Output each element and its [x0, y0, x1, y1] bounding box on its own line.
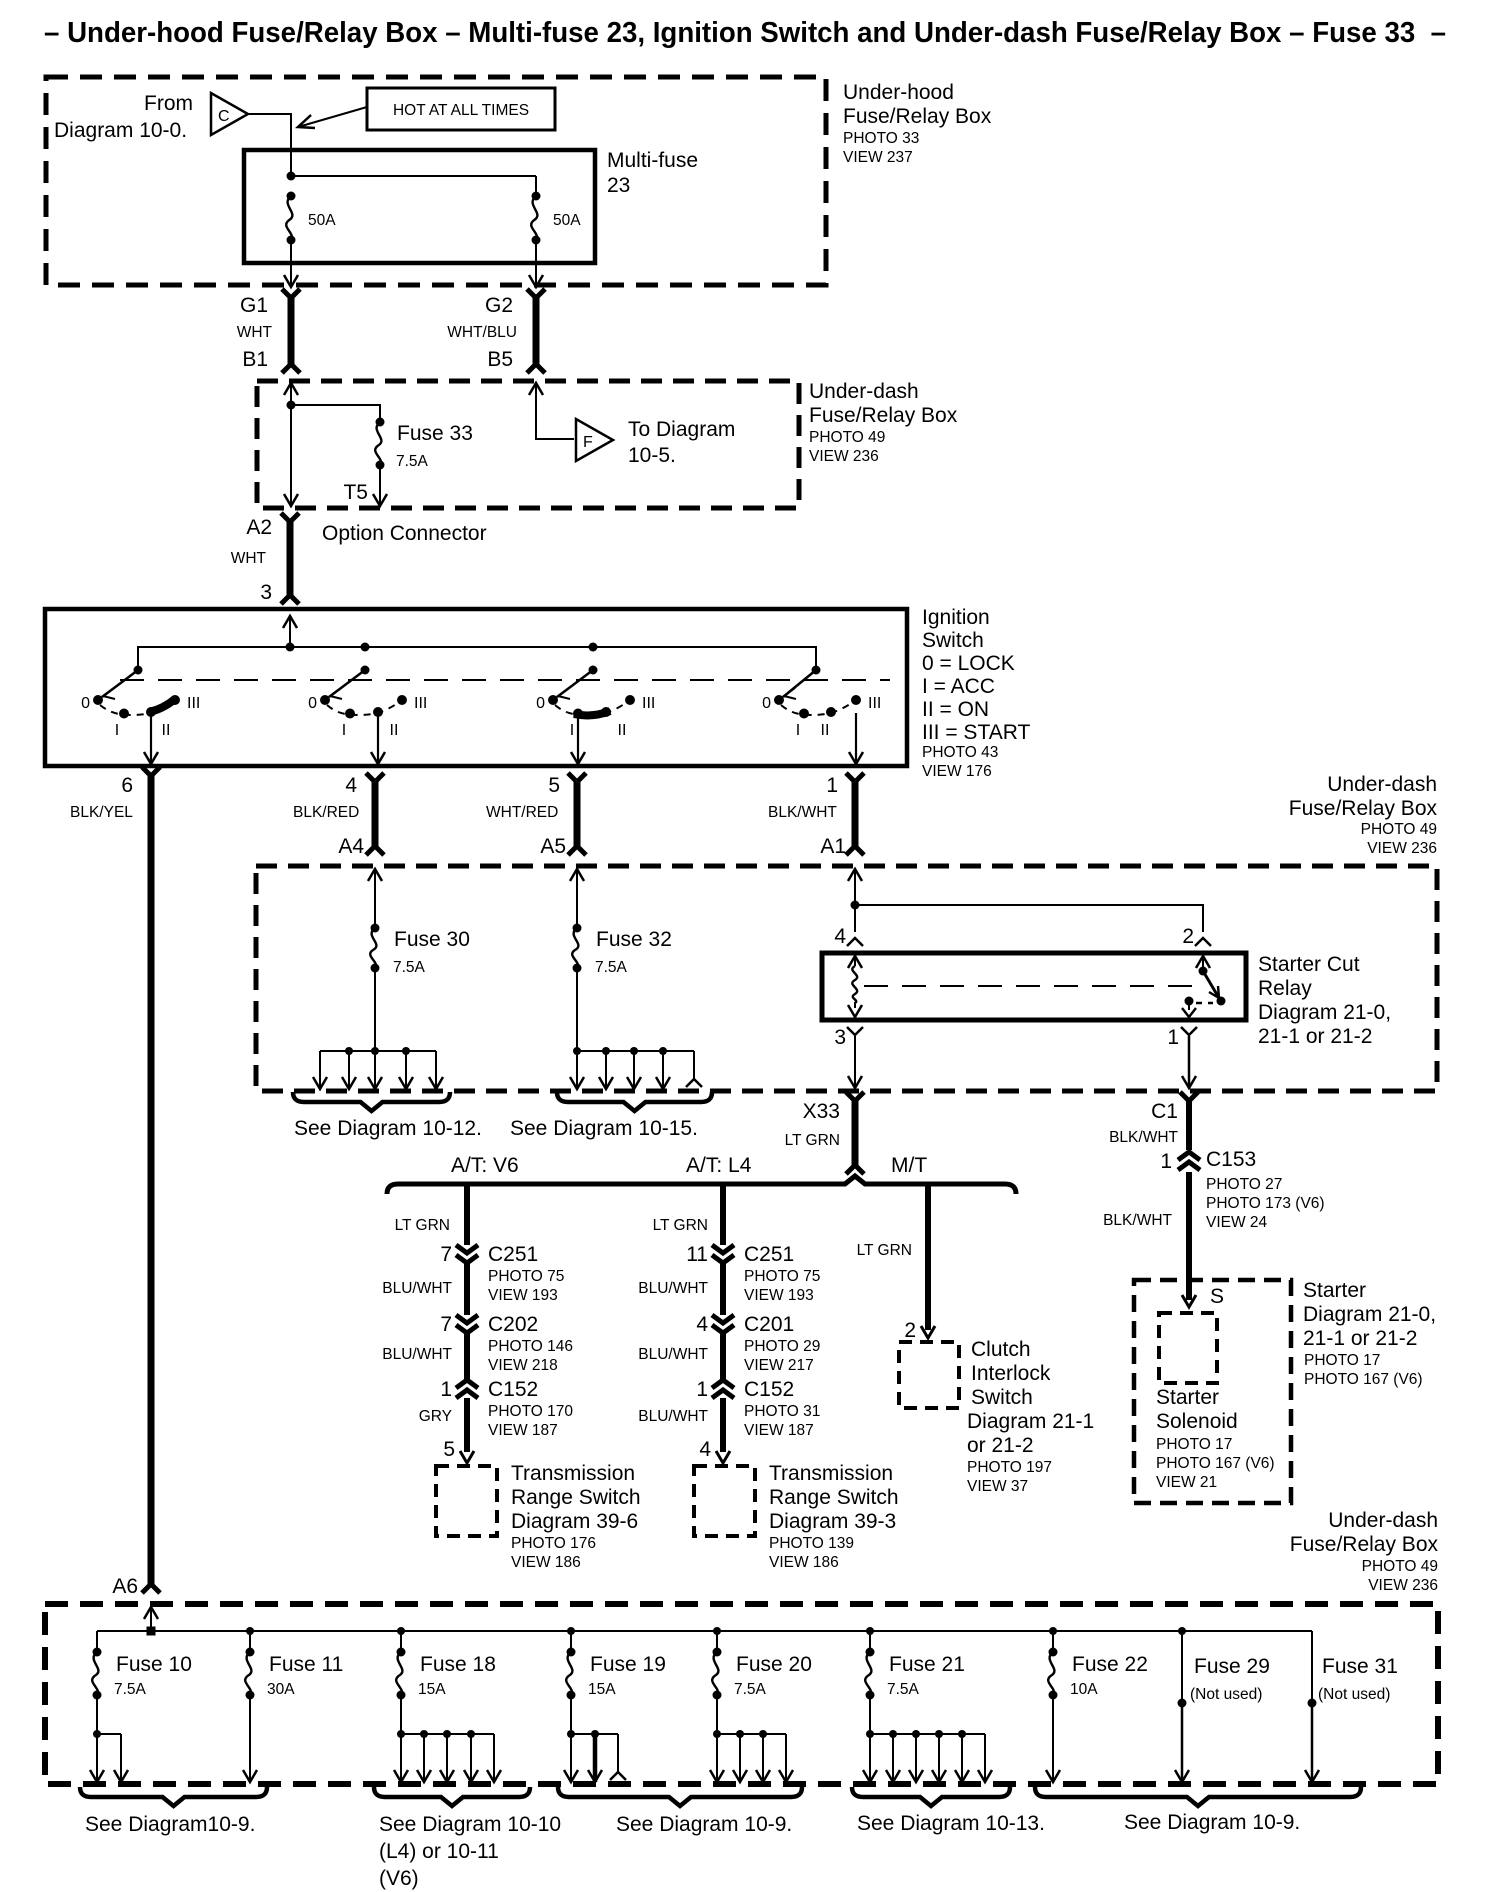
svg-text:VIEW 24: VIEW 24 [1206, 1214, 1268, 1231]
svg-text:2: 2 [1182, 925, 1194, 948]
svg-text:WHT: WHT [231, 550, 267, 567]
svg-text:Under-dash: Under-dash [1327, 773, 1437, 796]
svg-text:VIEW 193: VIEW 193 [744, 1287, 814, 1304]
svg-text:M/T: M/T [891, 1154, 927, 1177]
svg-text:C: C [218, 108, 230, 125]
svg-text:Diagram 21-0,: Diagram 21-0, [1303, 1303, 1436, 1326]
transmission range switch box (V6) [436, 1466, 497, 1536]
fuse 31 (not used) [1308, 1631, 1398, 1708]
wire fuse to G2 [529, 240, 543, 287]
svg-text:0: 0 [762, 695, 771, 712]
fuse 33 7.5A [375, 418, 473, 471]
brace see diagram 10-10/10-11 (fuse 18) [374, 1787, 561, 1890]
svg-text:VIEW 186: VIEW 186 [769, 1554, 839, 1571]
svg-text:3: 3 [834, 1026, 846, 1049]
terminal 6 connector and wire BLK/YEL to A6 [70, 767, 160, 1593]
svg-text:PHOTO 33: PHOTO 33 [843, 130, 919, 147]
fuse 30 output branch (see diagram 10-12) [313, 1047, 443, 1089]
wire BLU/WHT (V6 C202-C152) [382, 1333, 467, 1380]
svg-text:Multi-fuse: Multi-fuse [607, 149, 698, 172]
svg-text:Diagram 21-0,: Diagram 21-0, [1258, 1001, 1391, 1024]
svg-text:VIEW 187: VIEW 187 [744, 1422, 814, 1439]
svg-text:– Under-hood Fuse/Relay Box –: – Under-hood Fuse/Relay Box – Multi-fuse… [44, 17, 1446, 49]
svg-text:Solenoid: Solenoid [1156, 1410, 1238, 1433]
arrow from HOT AT ALL TIMES to wire [298, 107, 367, 128]
svg-text:To Diagram: To Diagram [628, 418, 735, 441]
fuse 19 output branch [564, 1695, 626, 1782]
fuse 20 output branch [710, 1695, 793, 1782]
svg-text:PHOTO 75: PHOTO 75 [488, 1268, 564, 1285]
svg-text:BLK/WHT: BLK/WHT [1103, 1212, 1172, 1229]
svg-text:See Diagram 10-15.: See Diagram 10-15. [510, 1117, 698, 1140]
fuse 21 output branch [863, 1695, 992, 1782]
svg-text:PHOTO 173 (V6): PHOTO 173 (V6) [1206, 1195, 1325, 1212]
svg-text:50A: 50A [308, 212, 336, 229]
svg-text:Starter Cut: Starter Cut [1258, 953, 1360, 976]
svg-text:II: II [821, 722, 830, 739]
svg-text:0: 0 [308, 695, 317, 712]
under-hood fuse/relay box (dashed enclosure) [46, 77, 826, 285]
svg-text:Fuse 10: Fuse 10 [116, 1653, 192, 1676]
svg-text:I: I [796, 722, 800, 739]
fuse 50A (left, multi-fuse 23) [286, 192, 336, 245]
connector C251 pin 11 (L4) [686, 1243, 820, 1304]
wire branch to relay pin 2 [855, 905, 1203, 932]
fuse 19 15A [566, 1627, 666, 1700]
connector C from Diagram 10-0 [211, 93, 248, 135]
svg-text:See Diagram 10-12.: See Diagram 10-12. [294, 1117, 482, 1140]
svg-text:VIEW 186: VIEW 186 [511, 1554, 581, 1571]
svg-text:X33: X33 [803, 1100, 840, 1123]
starter label (right) [1303, 1279, 1436, 1388]
svg-text:7.5A: 7.5A [396, 453, 429, 470]
svg-text:VIEW 236: VIEW 236 [1368, 1577, 1438, 1594]
svg-text:LT GRN: LT GRN [653, 1217, 708, 1234]
svg-text:Starter: Starter [1156, 1386, 1219, 1409]
ignition switch label [922, 606, 1031, 780]
svg-text:0: 0 [536, 695, 545, 712]
brace see diagram 10-9 (fuses 19-20) [558, 1787, 802, 1836]
fuse 21 7.5A [865, 1627, 965, 1700]
svg-text:II: II [390, 722, 399, 739]
svg-text:Clutch: Clutch [971, 1338, 1031, 1361]
wire BLU/WHT to transmission range switch (L4) pin 4 [638, 1398, 730, 1463]
fuse 10 7.5A [92, 1631, 192, 1700]
connector C1 BLK/WHT [1109, 1092, 1198, 1150]
svg-text:PHOTO 75: PHOTO 75 [744, 1268, 820, 1285]
svg-text:B5: B5 [487, 348, 513, 371]
svg-text:PHOTO 170: PHOTO 170 [488, 1403, 573, 1420]
svg-text:6: 6 [121, 774, 133, 797]
labels G1 WHT B1 [237, 294, 273, 371]
svg-text:PHOTO 176: PHOTO 176 [511, 1535, 596, 1552]
ignition dashed position line [120, 679, 890, 681]
wire relay pin 1 to C1 [1182, 1036, 1196, 1088]
svg-text:WHT: WHT [237, 324, 273, 341]
svg-text:PHOTO 167 (V6): PHOTO 167 (V6) [1156, 1455, 1275, 1472]
svg-text:50A: 50A [553, 212, 581, 229]
wire fuse 32 to branch [576, 968, 578, 1051]
wire fuse 30 to branch [374, 968, 376, 1051]
svg-text:A/T: L4: A/T: L4 [686, 1154, 752, 1177]
svg-text:Fuse/Relay Box: Fuse/Relay Box [809, 404, 958, 427]
svg-text:C251: C251 [488, 1243, 538, 1266]
bottom bus [97, 1630, 1312, 1632]
connector X33 LT GRN [785, 1092, 864, 1174]
svg-text:VIEW 37: VIEW 37 [967, 1478, 1028, 1495]
svg-text:0: 0 [81, 695, 90, 712]
svg-text:1: 1 [826, 774, 838, 797]
svg-text:T5: T5 [343, 481, 368, 504]
svg-text:(Not used): (Not used) [1190, 1686, 1262, 1703]
svg-text:PHOTO 17: PHOTO 17 [1156, 1436, 1232, 1453]
svg-text:4: 4 [834, 925, 846, 948]
brace see diagram 10-9 (fuses 10-11) [80, 1787, 267, 1836]
svg-text:C1: C1 [1151, 1100, 1178, 1123]
svg-text:Under-hood: Under-hood [843, 81, 954, 104]
wire A6 into box and bus [144, 1607, 158, 1636]
svg-text:PHOTO 31: PHOTO 31 [744, 1403, 820, 1420]
svg-text:II: II [162, 722, 171, 739]
svg-text:10A: 10A [1070, 1681, 1098, 1698]
svg-text:7.5A: 7.5A [734, 1681, 767, 1698]
label To Diagram 10-5. [628, 418, 735, 467]
connector G2/B5 [527, 289, 545, 373]
svg-text:See Diagram 10-9.: See Diagram 10-9. [1124, 1811, 1300, 1834]
svg-text:III: III [187, 695, 200, 712]
connector A6 [112, 1575, 138, 1598]
svg-text:F: F [583, 434, 593, 451]
relay pin 2 [1182, 925, 1211, 948]
svg-text:or 21-2: or 21-2 [967, 1434, 1034, 1457]
svg-text:C153: C153 [1206, 1148, 1256, 1171]
fuse 11 output wire [243, 1695, 257, 1782]
fuse 10 output branch [90, 1695, 128, 1782]
svg-text:1: 1 [440, 1378, 452, 1401]
fuse 20 7.5A [712, 1627, 812, 1700]
fuse 50A (right, multi-fuse 23) [531, 192, 581, 245]
svg-text:4: 4 [696, 1313, 708, 1336]
brace see diagram 10-13 (fuse 21) [852, 1787, 1045, 1835]
svg-text:Under-dash: Under-dash [809, 380, 919, 403]
svg-text:III = START: III = START [922, 721, 1031, 744]
svg-text:Fuse/Relay Box: Fuse/Relay Box [1289, 797, 1438, 820]
wire BLU/WHT (L4 C251-C201) [638, 1263, 723, 1315]
svg-text:Switch: Switch [971, 1386, 1033, 1409]
branch bracket [387, 1176, 1016, 1194]
transmission range switch box (L4) [694, 1466, 755, 1536]
svg-text:Diagram 39-3: Diagram 39-3 [769, 1510, 896, 1533]
svg-text:Fuse 11: Fuse 11 [269, 1653, 343, 1676]
wire C153 to starter solenoid [1182, 1172, 1196, 1307]
svg-text:5: 5 [443, 1438, 455, 1461]
svg-text:PHOTO 197: PHOTO 197 [967, 1459, 1052, 1476]
svg-text:0 = LOCK: 0 = LOCK [922, 652, 1015, 675]
svg-text:III: III [642, 695, 655, 712]
svg-text:PHOTO 27: PHOTO 27 [1206, 1176, 1282, 1193]
svg-text:Diagram 21-1: Diagram 21-1 [967, 1410, 1094, 1433]
svg-text:See Diagram 10-10: See Diagram 10-10 [379, 1813, 561, 1836]
terminal 5 connector WHT/RED A5 [486, 773, 586, 858]
relay pin 4 [834, 925, 863, 948]
wire A1 into box [848, 869, 862, 932]
svg-text:C152: C152 [488, 1378, 538, 1401]
svg-text:C251: C251 [744, 1243, 794, 1266]
svg-text:Fuse 20: Fuse 20 [736, 1653, 812, 1676]
svg-text:10-5.: 10-5. [628, 444, 676, 467]
relay pin 1 [1167, 1026, 1197, 1049]
under-dash fuse/relay box (bottom, dashed enclosure) [45, 1604, 1438, 1784]
svg-text:21-1 or 21-2: 21-1 or 21-2 [1258, 1025, 1372, 1048]
svg-text:BLK/RED: BLK/RED [293, 804, 359, 821]
svg-text:30A: 30A [267, 1681, 295, 1698]
svg-text:See Diagram 10-13.: See Diagram 10-13. [857, 1812, 1045, 1835]
ignition switch box [45, 609, 907, 766]
svg-text:PHOTO 49: PHOTO 49 [809, 429, 885, 446]
fuse 32 output branch (see diagram 10-15) [570, 1047, 702, 1089]
svg-text:7: 7 [440, 1313, 452, 1336]
svg-text:7.5A: 7.5A [393, 959, 426, 976]
svg-text:4: 4 [345, 774, 357, 797]
terminal 4 connector BLK/RED A4 [293, 773, 384, 858]
svg-text:Range Switch: Range Switch [769, 1486, 899, 1509]
svg-text:PHOTO 29: PHOTO 29 [744, 1338, 820, 1355]
svg-text:VIEW 217: VIEW 217 [744, 1357, 814, 1374]
svg-text:PHOTO 146: PHOTO 146 [488, 1338, 573, 1355]
wire B1 into box (node A2 leg) [284, 383, 298, 506]
svg-text:VIEW 187: VIEW 187 [488, 1422, 558, 1439]
svg-text:11: 11 [686, 1243, 708, 1266]
svg-text:2: 2 [904, 1319, 916, 1342]
under-dash fuse/relay box 2 (dashed enclosure) [256, 866, 1437, 1091]
under-dash box 3 label [1290, 1509, 1439, 1594]
multi-fuse 23 label [607, 149, 698, 197]
ignition switch pole 1 (terminal 6) [81, 666, 200, 765]
labels G2 WHT/BLU B5 [447, 294, 517, 371]
svg-text:A4: A4 [338, 835, 364, 858]
svg-text:Starter: Starter [1303, 1279, 1366, 1302]
svg-text:See Diagram 10-9.: See Diagram 10-9. [616, 1813, 792, 1836]
svg-text:BLU/WHT: BLU/WHT [382, 1280, 452, 1297]
svg-text:PHOTO 43: PHOTO 43 [922, 744, 998, 761]
wire A/T V6 LT GRN [395, 1186, 467, 1245]
fuse 18 15A [396, 1627, 496, 1700]
under-dash fuse/relay box 1 (dashed enclosure) [257, 381, 799, 508]
HOT AT ALL TIMES box [367, 88, 555, 130]
svg-text:B1: B1 [242, 348, 268, 371]
starter cut relay label [1258, 953, 1391, 1048]
ignition switch pole 3 (terminal 5) [536, 666, 655, 765]
svg-text:GRY: GRY [419, 1408, 452, 1425]
ignition switch pole 2 (terminal 4) [308, 666, 427, 765]
svg-text:C152: C152 [744, 1378, 794, 1401]
svg-text:Fuse 33: Fuse 33 [397, 422, 473, 445]
connector C201 pin 4 (L4) [696, 1313, 820, 1374]
svg-text:A1: A1 [820, 835, 846, 858]
fuse 11 30A [245, 1627, 343, 1700]
wire fuse 33 to T5 [343, 465, 387, 506]
fuse 31 output wire [1305, 1703, 1319, 1782]
svg-text:BLU/WHT: BLU/WHT [382, 1346, 452, 1363]
ignition internal bus [138, 643, 816, 671]
connector F to Diagram 10-5 [576, 419, 613, 461]
svg-text:VIEW 193: VIEW 193 [488, 1287, 558, 1304]
svg-text:21-1 or 21-2: 21-1 or 21-2 [1303, 1327, 1417, 1350]
svg-text:Fuse 30: Fuse 30 [394, 928, 470, 951]
svg-text:G2: G2 [485, 294, 513, 317]
under-hood box label [843, 81, 992, 166]
under-dash box 1 label [809, 380, 958, 465]
connector C152 pin 1 (L4) [696, 1378, 820, 1439]
wire relay pin 3 to X33 [848, 1036, 862, 1088]
svg-text:(L4) or 10-11: (L4) or 10-11 [379, 1840, 499, 1863]
svg-text:7.5A: 7.5A [114, 1681, 147, 1698]
svg-text:VIEW 176: VIEW 176 [922, 763, 992, 780]
svg-text:23: 23 [607, 174, 630, 197]
svg-text:Ignition: Ignition [922, 606, 990, 629]
svg-text:II: II [618, 722, 627, 739]
fuse 18 output branch [394, 1695, 501, 1782]
svg-text:Diagram 10-0.: Diagram 10-0. [54, 119, 187, 142]
svg-text:Fuse 18: Fuse 18 [420, 1653, 496, 1676]
svg-text:PHOTO 167 (V6): PHOTO 167 (V6) [1304, 1371, 1423, 1388]
svg-text:III: III [414, 695, 427, 712]
wire fuse to G1 [284, 240, 298, 287]
brace see diagram 10-9 (fuses 22-31) [1035, 1787, 1361, 1834]
starter cut relay box [822, 953, 1246, 1020]
wire BLU/WHT (V6 C251-C202) [382, 1263, 467, 1315]
connector C153 [1103, 1148, 1325, 1231]
svg-text:(V6): (V6) [379, 1867, 419, 1890]
starter solenoid label [1156, 1386, 1275, 1491]
svg-text:Switch: Switch [922, 629, 984, 652]
svg-text:BLK/WHT: BLK/WHT [1109, 1129, 1178, 1146]
svg-text:1: 1 [696, 1378, 708, 1401]
under-dash box 2 label [1289, 773, 1438, 857]
connector C152 pin 1 (V6) [440, 1378, 573, 1439]
svg-text:LT GRN: LT GRN [395, 1217, 450, 1234]
svg-text:C201: C201 [744, 1313, 794, 1336]
svg-text:VIEW 218: VIEW 218 [488, 1357, 558, 1374]
brace see diagram 10-12 [293, 1092, 482, 1140]
fuse 22 output wire [1046, 1695, 1060, 1782]
svg-text:BLU/WHT: BLU/WHT [638, 1408, 708, 1425]
svg-text:BLU/WHT: BLU/WHT [638, 1280, 708, 1297]
wire 3 into ignition switch [283, 616, 297, 647]
svg-text:G1: G1 [240, 294, 268, 317]
fuse 32 7.5A [572, 924, 672, 977]
svg-text:(Not used): (Not used) [1318, 1686, 1390, 1703]
svg-text:Fuse/Relay Box: Fuse/Relay Box [843, 105, 992, 128]
svg-text:Range Switch: Range Switch [511, 1486, 641, 1509]
svg-text:A2: A2 [246, 516, 272, 539]
svg-text:Fuse 19: Fuse 19 [590, 1653, 666, 1676]
connector G1/B1 [282, 289, 300, 373]
starter solenoid box (dashed) [1134, 1280, 1291, 1503]
svg-text:BLK/WHT: BLK/WHT [768, 804, 837, 821]
clutch interlock switch label [967, 1338, 1094, 1495]
labels A2 WHT 3 Option Connector [231, 516, 487, 604]
fuse 30 7.5A [370, 924, 470, 977]
transmission range switch label (V6) [511, 1462, 641, 1571]
wire branch to Fuse 33 [291, 405, 380, 422]
svg-text:S: S [1210, 1285, 1224, 1308]
svg-text:A6: A6 [112, 1575, 138, 1598]
terminal 1 connector BLK/WHT A1 [768, 773, 864, 858]
svg-text:Fuse 31: Fuse 31 [1322, 1655, 1398, 1678]
svg-text:III: III [868, 695, 881, 712]
relay coil [848, 956, 862, 1017]
svg-text:PHOTO 17: PHOTO 17 [1304, 1352, 1380, 1369]
svg-text:WHT/RED: WHT/RED [486, 804, 558, 821]
svg-text:PHOTO 49: PHOTO 49 [1361, 821, 1437, 838]
svg-text:Relay: Relay [1258, 977, 1312, 1000]
wire BLU/WHT (L4 C201-C152) [638, 1333, 723, 1380]
svg-text:I: I [115, 722, 119, 739]
wire A4 to fuse 30 [368, 869, 382, 928]
wire GRY to transmission range switch (V6) pin 5 [419, 1398, 474, 1463]
clutch interlock switch box [899, 1342, 959, 1408]
svg-text:I: I [342, 722, 346, 739]
svg-text:Transmission: Transmission [769, 1462, 893, 1485]
svg-text:A5: A5 [540, 835, 566, 858]
svg-text:5: 5 [548, 774, 560, 797]
svg-text:Interlock: Interlock [971, 1362, 1051, 1385]
wire A5 to fuse 32 [570, 869, 584, 928]
svg-text:VIEW 236: VIEW 236 [1367, 840, 1437, 857]
brace see diagram 10-15 [510, 1092, 712, 1140]
multi-fuse 23 box [244, 150, 595, 263]
svg-text:LT GRN: LT GRN [857, 1242, 912, 1259]
svg-text:Under-dash: Under-dash [1328, 1509, 1438, 1532]
svg-text:7.5A: 7.5A [595, 959, 628, 976]
connector C202 pin 7 (V6) [440, 1313, 573, 1374]
svg-text:7: 7 [440, 1243, 452, 1266]
svg-text:Fuse 29: Fuse 29 [1194, 1655, 1270, 1678]
svg-text:I = ACC: I = ACC [922, 675, 995, 698]
svg-text:From: From [144, 92, 193, 115]
label From Diagram 10-0. [54, 92, 193, 142]
svg-text:Fuse 21: Fuse 21 [889, 1653, 965, 1676]
svg-text:LT GRN: LT GRN [785, 1132, 840, 1149]
svg-text:3: 3 [260, 581, 272, 604]
svg-text:Fuse 32: Fuse 32 [596, 928, 672, 951]
svg-text:PHOTO 139: PHOTO 139 [769, 1535, 854, 1552]
relay switch contacts [1182, 956, 1226, 1017]
svg-text:VIEW 236: VIEW 236 [809, 448, 879, 465]
svg-text:HOT AT ALL TIMES: HOT AT ALL TIMES [393, 102, 529, 119]
svg-text:7.5A: 7.5A [887, 1681, 920, 1698]
svg-text:See Diagram10-9.: See Diagram10-9. [85, 1813, 255, 1836]
relay pin 3 [834, 1026, 863, 1049]
starter solenoid inner box [1159, 1313, 1217, 1383]
fuse 29 output wire [1175, 1703, 1189, 1782]
svg-text:1: 1 [1160, 1150, 1172, 1173]
wire from connector C to multi-fuse [248, 114, 291, 176]
svg-text:Option Connector: Option Connector [322, 522, 487, 545]
svg-text:I: I [570, 722, 574, 739]
connector A2 (option connector) [281, 513, 299, 604]
svg-text:15A: 15A [418, 1681, 446, 1698]
svg-text:Transmission: Transmission [511, 1462, 635, 1485]
svg-text:II = ON: II = ON [922, 698, 989, 721]
svg-text:15A: 15A [588, 1681, 616, 1698]
svg-text:VIEW 237: VIEW 237 [843, 149, 913, 166]
svg-text:BLK/YEL: BLK/YEL [70, 804, 133, 821]
fuse 22 10A [1048, 1627, 1148, 1700]
ignition switch pole 4 (terminal 1) [762, 666, 881, 765]
svg-text:BLU/WHT: BLU/WHT [638, 1346, 708, 1363]
